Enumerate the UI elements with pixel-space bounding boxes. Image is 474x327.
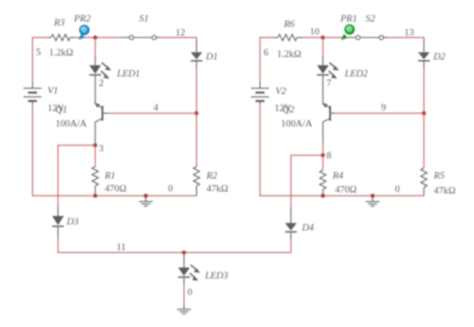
wire: node B branch down to LED2 (net 10) [322, 38, 324, 57]
svg-text:R2: R2 [206, 171, 218, 182]
diode D3 [52, 206, 64, 236]
svg-text:PR1: PR1 [340, 14, 358, 25]
svg-text:Q1: Q1 [56, 105, 68, 116]
diode D2 [418, 41, 430, 68]
wire: LED3 to ground [183, 284, 185, 305]
svg-text:4: 4 [154, 102, 159, 113]
svg-text:11: 11 [117, 242, 126, 253]
svg-text:12: 12 [176, 28, 186, 39]
wire: R3 to node A (net 12 head) [75, 37, 121, 39]
node 3 junction [93, 143, 97, 147]
probe PR2 [78, 25, 89, 40]
diode D4 [285, 207, 297, 240]
LED LED3 [178, 253, 200, 284]
svg-text:V1: V1 [48, 86, 59, 97]
svg-text:R5: R5 [433, 171, 445, 182]
transistor Q2 [323, 103, 335, 143]
resistor R6 [274, 34, 303, 40]
resistor R3 [48, 34, 76, 40]
svg-text:470Ω: 470Ω [335, 185, 357, 196]
svg-text:S2: S2 [366, 14, 376, 25]
svg-text:R4: R4 [332, 171, 344, 182]
resistor R1 [92, 145, 98, 196]
svg-text:5: 5 [36, 47, 41, 58]
svg-text:47kΩ: 47kΩ [207, 184, 229, 195]
node ground-rail junction right [371, 194, 375, 198]
svg-text:470Ω: 470Ω [105, 184, 127, 195]
wire: battery V2 top to R6 (net 6) [260, 38, 274, 83]
wire: D3 to rail 11 (net 11) [58, 236, 184, 253]
svg-text:0: 0 [188, 287, 193, 298]
switch S2 [348, 35, 389, 39]
node 4 junction [195, 111, 199, 115]
wire: battery V1 top to R3 (net 5) [33, 38, 48, 83]
node R1-rail junction [93, 194, 97, 198]
wire: node 4 junction to R2 [196, 113, 198, 166]
node B junction [321, 36, 325, 40]
svg-text:6: 6 [264, 48, 269, 59]
wire: D1 to node 4 junction [196, 68, 198, 113]
svg-text:2: 2 [99, 78, 104, 89]
resistor R2 [193, 167, 199, 196]
svg-text:8: 8 [327, 151, 332, 162]
svg-text:R3: R3 [53, 18, 65, 29]
svg-text:R1: R1 [104, 171, 116, 182]
svg-text:LED2: LED2 [344, 69, 368, 80]
svg-text:D4: D4 [301, 223, 314, 234]
ground at LED3 [177, 305, 191, 314]
svg-text:S1: S1 [139, 14, 149, 25]
wire: S2 to D2 corner (net 13) [388, 38, 424, 42]
wire: node B to S2 [323, 37, 348, 39]
wire: Q1 base to node 4 (net 4) [108, 112, 197, 114]
svg-text:1.2kΩ: 1.2kΩ [277, 49, 301, 60]
svg-text:LED3: LED3 [204, 271, 228, 282]
svg-text:100A/A: 100A/A [281, 119, 312, 130]
wire: S1 to D1 corner (net 12) [161, 38, 197, 42]
svg-text:PR2: PR2 [73, 14, 91, 25]
svg-text:7: 7 [327, 78, 332, 89]
wire: node A branch down to LED1 (net 12) [94, 38, 96, 57]
battery V2 [251, 82, 269, 105]
node 11 junction at LED3 [182, 251, 186, 255]
node 9 junction [422, 111, 426, 115]
transistor Q1 [95, 103, 107, 143]
svg-text:10: 10 [310, 27, 320, 38]
resistor R5 [421, 168, 427, 196]
svg-text:D2: D2 [433, 52, 446, 63]
wire: D2 to node 9 junction [423, 68, 425, 113]
wire: Q2 base to node 9 (net 9) [335, 112, 424, 114]
wire: Q1 collector to node 3 [94, 143, 96, 146]
probe PR1 [341, 25, 354, 40]
switch S1 [121, 35, 161, 39]
svg-text:R6: R6 [283, 19, 295, 30]
node R4-rail junction [321, 194, 325, 198]
svg-text:47kΩ: 47kΩ [434, 186, 456, 197]
svg-text:13: 13 [404, 28, 414, 39]
wire: battery V1 minus to ground rail (net 0) [33, 105, 197, 196]
svg-text:1.2kΩ: 1.2kΩ [49, 48, 73, 59]
wire: R6 to node B (net 10) [302, 37, 323, 39]
wire: node 3 to D3 (net 3) [58, 145, 95, 206]
LED LED1 [89, 56, 111, 104]
node ground-rail junction [144, 194, 148, 198]
battery V1 [24, 82, 42, 105]
resistor R4 [320, 155, 326, 196]
node A junction (net 12 / LED1 branch) [93, 36, 97, 40]
svg-text:9: 9 [381, 102, 386, 113]
svg-text:D1: D1 [205, 52, 218, 63]
wire: rail 11 to D4 [184, 240, 291, 253]
wire: node 8 to D4 (net 8) [291, 155, 323, 206]
svg-text:0: 0 [395, 184, 400, 195]
ground right rail [366, 196, 380, 206]
svg-text:Q2: Q2 [283, 105, 295, 116]
svg-text:V2: V2 [276, 86, 287, 97]
wire: node 9 junction to R5 [423, 113, 425, 168]
node 8 junction [321, 153, 325, 157]
LED LED2 [317, 56, 339, 104]
svg-text:0: 0 [168, 184, 173, 195]
wire: battery V2 minus to right ground rail (net 0) [260, 105, 424, 196]
diode D1 [191, 41, 203, 68]
ground left rail [139, 196, 153, 206]
svg-text:100A/A: 100A/A [56, 119, 87, 130]
svg-text:LED1: LED1 [116, 69, 140, 80]
wire: Q2 collector to node 8 [322, 143, 324, 156]
svg-text:D3: D3 [66, 217, 79, 228]
svg-text:3: 3 [99, 144, 104, 155]
